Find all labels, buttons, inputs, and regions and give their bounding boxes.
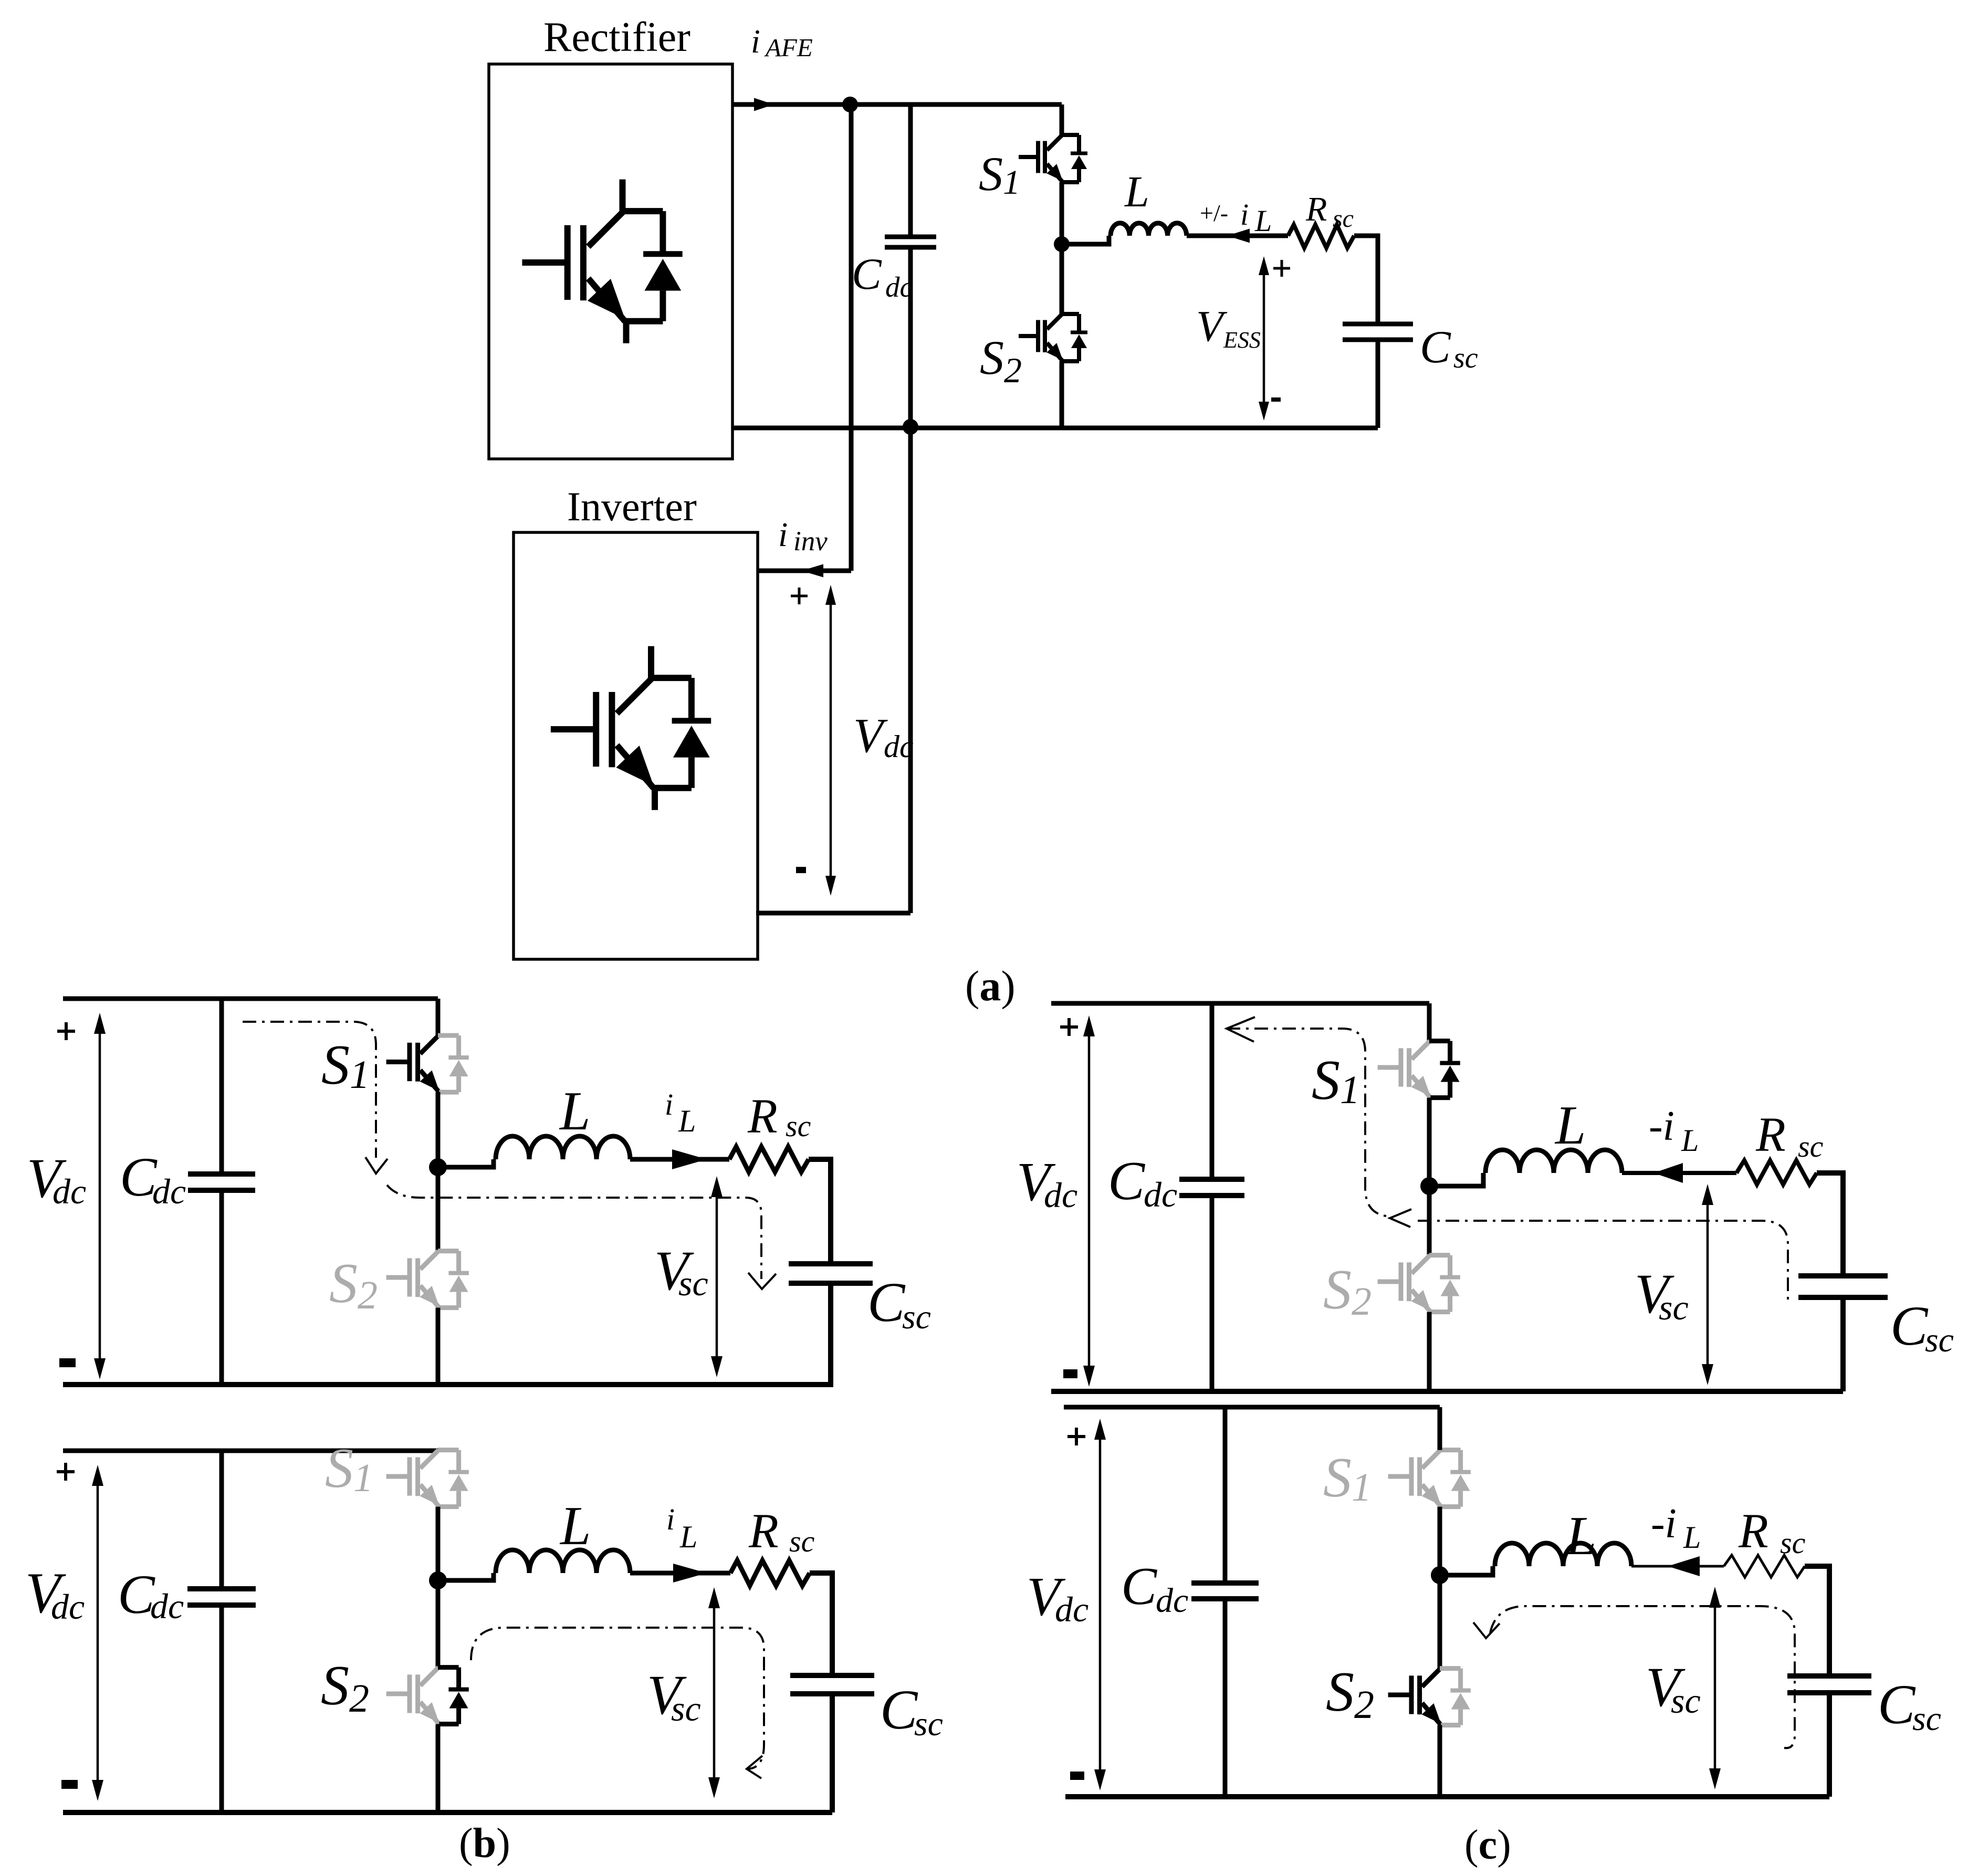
wire S2 to bottom bus (b-bot) <box>436 1724 441 1812</box>
label R_sc (a) <box>1305 190 1354 233</box>
capacitor C_sc (b-top) <box>789 1264 873 1283</box>
svg-text:sc: sc <box>902 1298 931 1336</box>
label R_sc (b-top) <box>747 1089 811 1144</box>
wire top DC bus (a) <box>732 102 1062 107</box>
wire bottom bus (b-bot) <box>63 1810 832 1815</box>
wire S2 to bottom bus (b-top) <box>436 1308 441 1384</box>
wire midbranch (c-bot) <box>1438 1507 1442 1669</box>
label - (b-bot) <box>61 1780 78 1789</box>
wire S2 emitter to bottom bus (a) <box>1060 361 1064 428</box>
svg-text:sc: sc <box>1925 1321 1954 1359</box>
arrow i_inv direction <box>801 564 823 578</box>
svg-text:-i: -i <box>1649 1103 1674 1149</box>
capacitor Cdc (b-top) <box>188 1174 255 1190</box>
svg-text:Rectifier: Rectifier <box>543 14 690 60</box>
svg-text:V: V <box>1196 302 1228 351</box>
label S1 (b-top) <box>321 1034 370 1097</box>
wire inductor to resistor (a) <box>1187 234 1288 238</box>
wire Cdc branch upper (b-top) <box>219 999 224 1174</box>
svg-text:C: C <box>1121 1557 1157 1616</box>
wire S2 to bottom bus (c-bot) <box>1438 1725 1442 1797</box>
svg-text:AFE: AFE <box>764 33 813 62</box>
svg-text:L: L <box>559 1080 590 1141</box>
label S1 (c-top) <box>1312 1049 1360 1112</box>
svg-text:L: L <box>678 1104 696 1138</box>
svg-text:L: L <box>559 1495 591 1556</box>
measure arrow V_dc (b-bot) <box>92 1465 103 1801</box>
label C_dc (a) <box>852 249 913 303</box>
label +/- i_L (a) <box>1200 197 1272 238</box>
inductor L (c-bot) <box>1495 1543 1631 1566</box>
label S1 (b-bot) <box>325 1437 373 1500</box>
wire top DC bus (b-bot) <box>63 1449 438 1453</box>
svg-text:C: C <box>867 1272 906 1334</box>
wire junction to inductor (c-bot) <box>1440 1566 1493 1575</box>
wire bottom bus (c-top) <box>1051 1389 1843 1394</box>
label V_dc (b-bot) <box>25 1561 85 1627</box>
label C_sc (a) <box>1420 322 1478 374</box>
svg-text:C: C <box>1420 322 1451 373</box>
svg-text:V: V <box>853 709 888 763</box>
label V_dc (a) <box>853 709 914 764</box>
svg-text:inv: inv <box>793 526 828 557</box>
wire top DC bus (b-top) <box>63 997 438 1001</box>
svg-text:dc: dc <box>53 1171 86 1211</box>
arrow i_L (b-top) <box>672 1149 707 1169</box>
text Rectifier title <box>543 14 690 60</box>
measure arrow V_dc (b-top) <box>94 1013 106 1379</box>
capacitor Cdc (c-top) <box>1179 1179 1244 1196</box>
svg-text:i: i <box>665 1087 673 1122</box>
svg-text:-i: -i <box>1651 1501 1677 1547</box>
svg-text:sc: sc <box>789 1524 815 1558</box>
label L (b-bot) <box>559 1495 591 1556</box>
wire DC-link to inverter bottom <box>908 427 913 913</box>
label - (b-top) <box>59 1358 76 1367</box>
label S2 (b-bot) <box>321 1654 369 1721</box>
current path dash-dot to Csc (b-top) <box>387 1185 776 1289</box>
svg-text:dc: dc <box>1044 1175 1077 1215</box>
inductor L (b-top) <box>496 1136 630 1159</box>
label L (b-top) <box>559 1080 590 1141</box>
label -i_L (c-bot) <box>1651 1501 1701 1555</box>
label V_sc (b-bot) <box>647 1664 701 1728</box>
wire Csc to bottom bus (a) <box>1376 340 1380 428</box>
svg-text:dc: dc <box>152 1171 186 1211</box>
label -i_L (c-top) <box>1649 1103 1699 1158</box>
wire top DC bus (c-top) <box>1051 1001 1429 1006</box>
measure arrow V_dc (c-bot) <box>1094 1419 1106 1790</box>
svg-text:L: L <box>1681 1123 1699 1158</box>
label V_sc (c-bot) <box>1646 1657 1701 1721</box>
transistor S1 (c-top) diode conducting <box>1378 1041 1460 1098</box>
svg-text:i: i <box>778 516 788 554</box>
svg-text:L: L <box>1565 1505 1596 1566</box>
rectifier internal IGBT symbol <box>522 180 682 343</box>
label V_ESS <box>1196 302 1261 353</box>
svg-text:i: i <box>666 1502 675 1536</box>
caption (b) <box>459 1820 510 1867</box>
label + (b-top) <box>57 1022 75 1040</box>
label S2 (c-top) <box>1323 1259 1372 1324</box>
wire resistor to Csc corner (c-top) <box>1817 1173 1843 1276</box>
wire junction to inductor (c-top) <box>1429 1173 1483 1186</box>
svg-text:(c): (c) <box>1464 1822 1511 1868</box>
transistor S1 (b-top) conducting <box>386 1035 469 1092</box>
transistor S2 (c-top) off <box>1378 1255 1460 1312</box>
label + of V_dc (a) <box>791 588 808 604</box>
transistor S1 (b-bot) off <box>386 1450 469 1507</box>
svg-text:+/-: +/- <box>1200 200 1228 226</box>
label + (c-top) <box>1060 1018 1078 1036</box>
label V_dc (c-bot) <box>1027 1566 1088 1629</box>
wire midbranch (c-top) <box>1427 1098 1432 1255</box>
current path dash-dot S1 branch (b-top) <box>243 1022 388 1173</box>
svg-text:dc: dc <box>150 1586 184 1626</box>
label + of V_ESS <box>1273 260 1290 277</box>
inverter internal IGBT symbol <box>551 646 711 810</box>
wire Cdc branch lower (b-bot) <box>219 1605 224 1812</box>
label S2 (c-bot) <box>1326 1661 1374 1727</box>
resistor R_sc (b-bot) <box>730 1560 810 1586</box>
resistor R_sc (c-bot) <box>1724 1555 1805 1577</box>
label - of V_ESS <box>1271 397 1281 402</box>
inductor L (a) <box>1111 223 1187 236</box>
arrow -i_L (c-bot) <box>1668 1556 1700 1576</box>
wire inductor to resistor (b-bot) <box>630 1571 730 1576</box>
label C_dc (c-bot) <box>1121 1557 1188 1620</box>
capacitor C_sc (c-bot) <box>1787 1676 1871 1693</box>
svg-text:dc: dc <box>1055 1589 1088 1629</box>
wire Cdc branch upper (b-bot) <box>219 1451 224 1589</box>
wire Cdc branch lower (c-top) <box>1210 1196 1215 1391</box>
svg-text:dc: dc <box>51 1587 85 1627</box>
svg-text:i: i <box>1240 197 1249 232</box>
caption (c) <box>1464 1822 1511 1868</box>
wire bottom DC bus (a) <box>732 426 1378 431</box>
svg-text:C: C <box>852 249 882 299</box>
svg-text:R: R <box>1738 1504 1768 1558</box>
svg-text:dc: dc <box>884 729 914 764</box>
label V_sc (b-top) <box>654 1240 708 1303</box>
label L (a) <box>1124 167 1149 216</box>
label S1 (a) <box>979 147 1020 202</box>
svg-text:(a): (a) <box>965 962 1016 1010</box>
transistor S2 (b-bot) diode conducting <box>386 1668 469 1724</box>
measure arrow V_sc (c-top) <box>1702 1184 1713 1385</box>
rectifier box U1 <box>489 64 732 459</box>
label S2 (b-top) <box>329 1252 378 1317</box>
label C_sc (c-bot) <box>1878 1674 1941 1738</box>
wire Csc to bottom bus (c-bot) <box>1827 1693 1832 1797</box>
svg-text:L: L <box>1554 1094 1586 1156</box>
svg-text:sc: sc <box>678 1263 708 1303</box>
capacitor Cdc (a) <box>885 237 936 247</box>
wire inverter feed vertical <box>849 104 854 571</box>
wire Cdc branch lower (c-bot) <box>1223 1599 1228 1797</box>
label R_sc (c-top) <box>1755 1108 1824 1164</box>
current path dash-dot freewheeling loop (b-bot) <box>471 1628 764 1778</box>
svg-text:dc: dc <box>1156 1581 1188 1620</box>
wire bottom bus (c-bot) <box>1065 1794 1829 1799</box>
label R_sc (c-bot) <box>1738 1504 1806 1560</box>
capacitor Cdc (c-bot) <box>1191 1583 1259 1599</box>
inductor L (b-bot) <box>496 1550 630 1573</box>
svg-text:ESS: ESS <box>1223 327 1261 353</box>
wire Cdc branch upper (c-bot) <box>1223 1407 1228 1583</box>
label V_dc (c-top) <box>1017 1151 1077 1215</box>
label V_sc (c-top) <box>1635 1263 1689 1327</box>
wire resistor to Csc corner (b-top) <box>809 1159 831 1262</box>
svg-text:(b): (b) <box>459 1820 510 1867</box>
label i_L (b-bot) <box>666 1502 697 1554</box>
wire top DC bus (c-bot) <box>1064 1405 1440 1410</box>
svg-text:C: C <box>1878 1674 1916 1736</box>
node midpoint junction dot (b-top) <box>429 1158 447 1176</box>
label S2 (a) <box>980 331 1022 390</box>
wire S1 top lead (c-bot) <box>1438 1407 1442 1450</box>
svg-text:sc: sc <box>1912 1700 1941 1738</box>
capacitor Cdc (b-bot) <box>187 1589 256 1605</box>
wire S1 top lead (a) <box>1060 104 1064 135</box>
svg-text:dc: dc <box>1144 1175 1177 1214</box>
arrow i_L (b-bot) <box>673 1564 707 1582</box>
label i_L (b-top) <box>665 1087 696 1138</box>
transistor S1 (c-bot) off <box>1388 1450 1471 1507</box>
node junction dot top bus / inverter tap <box>842 97 858 112</box>
wire Cdc branch upper (c-top) <box>1210 1003 1215 1179</box>
svg-text:L: L <box>679 1519 697 1554</box>
svg-text:R: R <box>748 1504 779 1558</box>
wire resistor to Csc corner (c-bot) <box>1805 1566 1829 1676</box>
resistor R_sc (a) <box>1288 225 1354 248</box>
wire midbranch (b-top) <box>436 1092 441 1251</box>
svg-text:sc: sc <box>786 1109 811 1143</box>
svg-text:R: R <box>1755 1108 1786 1162</box>
svg-text:sc: sc <box>1659 1287 1689 1327</box>
transistor S2 (a) <box>1019 314 1087 361</box>
label - (c-top) <box>1063 1369 1077 1378</box>
wire S1 top lead (b-top) <box>436 999 441 1035</box>
label C_sc (b-top) <box>867 1272 931 1336</box>
label + (b-bot) <box>57 1463 75 1481</box>
wire bottom bus (b-top) <box>63 1382 833 1387</box>
svg-text:i: i <box>751 23 760 60</box>
wire junction to inductor (b-bot) <box>438 1573 494 1580</box>
wire inverter bottom horizontal <box>756 911 910 916</box>
label i_inv <box>778 516 828 557</box>
arrow i_AFE direction <box>754 98 774 111</box>
svg-text:L: L <box>1254 204 1272 238</box>
label C_sc (b-bot) <box>880 1679 943 1743</box>
current path dash-dot to DC bus (c-top) <box>1227 1017 1411 1227</box>
node midpoint junction dot (c-top) <box>1420 1177 1438 1195</box>
wire junction to inductor (b-top) <box>438 1159 494 1167</box>
wire Csc to bottom bus (b-top) <box>828 1283 833 1385</box>
inductor L (c-top) <box>1485 1150 1622 1173</box>
wire inductor to resistor (c-bot) <box>1631 1565 1724 1568</box>
wire Cdc branch lower (b-top) <box>219 1190 224 1384</box>
measure arrow V_sc (c-bot) <box>1709 1587 1721 1789</box>
svg-text:L: L <box>1683 1520 1701 1555</box>
resistor R_sc (b-top) <box>729 1147 809 1172</box>
svg-text:C: C <box>1108 1150 1146 1211</box>
label C_dc (b-bot) <box>118 1564 184 1626</box>
wire midbranch (b-bot) <box>436 1507 441 1668</box>
current path dash-dot loop (c-bot) <box>1473 1606 1795 1748</box>
label - (c-bot) <box>1070 1772 1084 1780</box>
arrow -i_L (c-top) <box>1653 1163 1683 1183</box>
wire S1 top lead (c-top) <box>1427 1003 1432 1041</box>
measure arrow V_dc (a) <box>825 585 836 896</box>
label R_sc (b-bot) <box>748 1504 815 1558</box>
capacitor C_sc (b-bot) <box>790 1675 874 1694</box>
svg-text:sc: sc <box>1671 1681 1701 1721</box>
text Inverter title <box>567 484 697 529</box>
label + (c-bot) <box>1067 1428 1085 1445</box>
node midpoint junction dot (c-bot) <box>1431 1566 1449 1584</box>
wire i_inv horizontal <box>758 569 851 573</box>
svg-text:C: C <box>880 1679 918 1741</box>
capacitor C_sc (c-top) <box>1798 1276 1888 1297</box>
wire Csc to bottom bus (c-top) <box>1840 1297 1846 1391</box>
measure arrow V_sc (b-top) <box>711 1176 723 1377</box>
wire resistor to Csc corner (a) <box>1354 236 1378 324</box>
svg-text:sc: sc <box>1798 1129 1824 1164</box>
node midpoint junction dot (b-bot) <box>429 1571 447 1589</box>
wire Csc to bottom bus (b-bot) <box>830 1694 835 1812</box>
wire inductor to resistor (b-top) <box>630 1157 729 1162</box>
svg-text:C: C <box>1890 1295 1929 1357</box>
current path dash-dot from Csc (c-top) <box>1418 1221 1788 1303</box>
svg-text:R: R <box>747 1089 778 1144</box>
label i_AFE <box>751 23 813 62</box>
svg-text:Inverter: Inverter <box>567 484 697 529</box>
transistor S1 (a) <box>1019 135 1087 182</box>
transistor S2 (b-top) off <box>386 1251 469 1308</box>
caption (a) <box>965 962 1016 1010</box>
wire inductor to resistor (c-top) <box>1622 1171 1736 1175</box>
label C_sc (c-top) <box>1890 1295 1954 1359</box>
label L (c-top) <box>1554 1094 1586 1156</box>
resistor R_sc (c-top) <box>1736 1160 1817 1185</box>
transistor S2 (c-bot) conducting <box>1388 1669 1471 1725</box>
svg-text:sc: sc <box>671 1689 701 1728</box>
svg-text:L: L <box>1124 167 1149 216</box>
label L (c-bot) <box>1565 1505 1596 1566</box>
wire Cdc branch lower (a) <box>908 247 913 427</box>
inverter box U2 <box>514 532 758 959</box>
wire junction to inductor (a) <box>1062 236 1109 244</box>
capacitor C_sc (a) <box>1343 324 1413 340</box>
label S1 (c-bot) <box>1323 1447 1372 1510</box>
arrow i_L direction (a) <box>1227 229 1250 243</box>
svg-text:sc: sc <box>914 1705 943 1743</box>
wire Cdc branch upper (a) <box>908 104 913 237</box>
label - of V_dc (a) <box>796 867 806 873</box>
measure arrow V_dc (c-top) <box>1083 1015 1095 1387</box>
measure arrow V_sc (b-bot) <box>708 1587 720 1798</box>
wire S2 to bottom bus (c-top) <box>1427 1312 1432 1391</box>
wire S1-S2 midbranch (a) <box>1060 182 1064 314</box>
wire resistor to Csc corner (b-bot) <box>810 1573 832 1675</box>
label V_dc (b-top) <box>27 1148 86 1211</box>
node junction dot bottom bus (a) <box>903 419 918 435</box>
measure arrow V_ESS <box>1259 256 1269 421</box>
node midpoint junction dot (a) <box>1054 236 1070 252</box>
label C_dc (c-top) <box>1108 1150 1177 1214</box>
label C_dc (b-top) <box>120 1146 186 1211</box>
svg-text:sc: sc <box>1453 342 1478 374</box>
